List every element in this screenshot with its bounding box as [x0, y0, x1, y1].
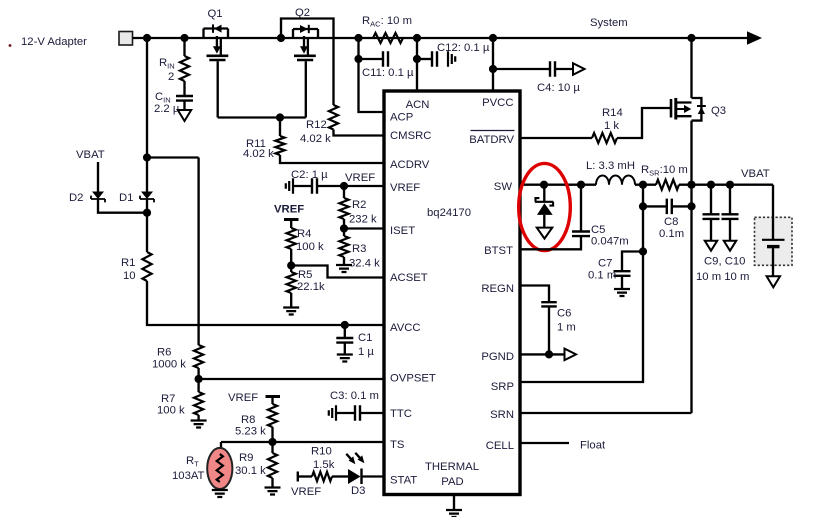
svg-text:R8: R8	[241, 414, 255, 426]
capacitor C4	[550, 61, 555, 77]
svg-text:bq24170: bq24170	[427, 207, 471, 219]
node dot C4 branch	[489, 65, 497, 73]
svg-text:1000 k: 1000 k	[152, 359, 186, 371]
wire: schottky gnd stub	[543, 215, 545, 228]
wire: Q1-Q2 gate bus	[218, 116, 306, 118]
capacitor C3	[355, 405, 360, 421]
transistor Q1 channel arrow	[217, 36, 221, 55]
svg-text:CELL: CELL	[486, 440, 514, 452]
wire: R1 to AVCC	[147, 281, 384, 325]
svg-text:D3: D3	[351, 485, 365, 497]
arrow: PGND	[565, 349, 577, 361]
wire: R8 stem	[271, 397, 273, 405]
svg-text:103AT: 103AT	[172, 470, 205, 482]
svg-text:5.23 k: 5.23 k	[235, 426, 266, 438]
svg-text:C6: C6	[557, 308, 571, 320]
svg-text:VREF: VREF	[291, 486, 321, 498]
svg-text:BATDRV: BATDRV	[469, 134, 514, 146]
diode D4 schottky	[537, 203, 553, 215]
transistor Q3 gate bar	[670, 99, 673, 118]
svg-text:RAC: 10 m: RAC: 10 m	[362, 15, 412, 29]
node dot PVCC	[489, 34, 497, 42]
svg-text:R3: R3	[352, 243, 366, 255]
node dot adapter-left-vertical	[143, 34, 151, 42]
wire: C5 to BTST	[520, 236, 581, 249]
wire: schottky stub	[543, 185, 545, 201]
resistor R3	[339, 236, 348, 257]
wire: thermal pad ground stub	[453, 495, 455, 510]
wire: C7 branch	[622, 252, 643, 272]
resistor RIN	[180, 56, 189, 81]
transistor Q2 body diode	[300, 25, 308, 33]
svg-text:1 k: 1 k	[604, 120, 619, 132]
wire: Q1 gate lead	[217, 61, 219, 117]
node dot R4-R5	[287, 261, 295, 269]
transistor Q3 channel arrow	[676, 108, 685, 110]
resistor R8	[268, 404, 277, 427]
svg-text:R10: R10	[311, 446, 332, 458]
wire: R2 top stub	[343, 186, 345, 198]
svg-text:Q1: Q1	[207, 8, 222, 20]
svg-text:VREF: VREF	[390, 182, 420, 194]
wire: TS wire	[221, 441, 384, 443]
resistor R7	[194, 392, 203, 415]
svg-text:C11: 0.1 µ: C11: 0.1 µ	[362, 67, 414, 79]
svg-text:PGND: PGND	[481, 351, 514, 363]
node dot C8 left	[639, 202, 647, 210]
wire: C8 left lead	[643, 205, 667, 207]
wire: adapter left vertical	[146, 38, 148, 192]
battery plate short	[767, 245, 780, 248]
wire: PGND lead	[520, 353, 565, 355]
svg-text:AVCC: AVCC	[390, 322, 421, 334]
wire: C4 lead	[493, 68, 550, 70]
svg-text:ACP: ACP	[390, 112, 413, 124]
wire: RIN stub	[183, 38, 185, 56]
svg-text:System: System	[590, 17, 628, 29]
svg-text:THERMAL: THERMAL	[425, 461, 479, 473]
svg-text:10 m 10 m: 10 m 10 m	[696, 271, 749, 283]
svg-text:1 µ: 1 µ	[358, 346, 374, 358]
svg-text:VBAT: VBAT	[741, 168, 770, 180]
highlight ellipse (red)	[519, 163, 571, 250]
svg-text:R7: R7	[161, 393, 175, 405]
capacitor C12	[432, 51, 437, 67]
ground (sideways) at C3	[329, 405, 336, 421]
svg-text:BTST: BTST	[484, 245, 513, 257]
resistor R12	[329, 105, 338, 130]
svg-text:C4: 10 µ: C4: 10 µ	[537, 82, 580, 94]
node dot R8-R9	[268, 438, 276, 446]
svg-text:Q3: Q3	[711, 105, 726, 117]
svg-text:R2: R2	[352, 199, 366, 211]
svg-text:32.4 k: 32.4 k	[349, 258, 380, 270]
wire: RT stub	[220, 442, 222, 448]
svg-text:1.5k: 1.5k	[313, 459, 335, 471]
wire: R14 to Q3 gate	[617, 108, 670, 138]
battery pack box	[755, 217, 793, 265]
node: R10 input terminal	[297, 472, 299, 482]
svg-text:1 m: 1 m	[557, 322, 576, 334]
thermistor RT body	[207, 448, 232, 489]
svg-text:C5: C5	[591, 224, 605, 236]
wire: C8 right lead	[672, 205, 692, 207]
svg-text:0.1 m: 0.1 m	[588, 270, 616, 282]
transistor Q1 body-diode path	[204, 29, 229, 39]
svg-text:0.1m: 0.1m	[659, 228, 684, 240]
ground below R7	[191, 421, 207, 428]
wire: R11 top stub	[279, 118, 281, 137]
node: 12-V adapter input pad	[119, 32, 133, 46]
wire: adapter input rail	[133, 37, 748, 39]
wire: CELL wire	[520, 442, 569, 444]
svg-text:R5: R5	[298, 269, 312, 281]
LED D3 arrows	[346, 453, 360, 459]
transistor Q2 body-diode path	[293, 29, 318, 38]
svg-text:RSR:10 m: RSR:10 m	[641, 164, 688, 178]
node dot RIN branch	[180, 34, 188, 42]
wire: L to RSR	[635, 184, 656, 186]
wire: VREF stem	[290, 220, 292, 229]
wire: C9 stub	[710, 185, 712, 215]
svg-text:R1: R1	[121, 257, 135, 269]
ground (sideways) at C12	[448, 51, 455, 67]
svg-text:ACSET: ACSET	[390, 272, 428, 284]
wire: Q3 drain from system	[690, 38, 692, 98]
node dot C9 top	[707, 181, 715, 189]
wire: R12 to CMSRC	[334, 130, 385, 136]
net VREF T-bar	[284, 218, 299, 221]
node dot C8 right	[687, 202, 695, 210]
wire: ACN drop	[416, 38, 418, 91]
svg-text:REGN: REGN	[481, 283, 514, 295]
wire: battery gnd stub	[772, 248, 774, 276]
transistor Q3 body diode	[698, 107, 705, 114]
node dot C1 branch	[341, 321, 349, 329]
capacitor C9	[703, 214, 720, 219]
transistor Q2 outer loop	[281, 19, 334, 106]
node dot C5 top	[577, 181, 585, 189]
resistor R14	[592, 133, 617, 143]
node dot gate bus / R11	[276, 113, 284, 121]
svg-text:Q2: Q2	[295, 7, 310, 19]
wire: OVP divider vertical	[197, 158, 199, 346]
svg-text:C9, C10: C9, C10	[704, 256, 745, 268]
svg-text:0.047m: 0.047m	[591, 236, 629, 248]
wire: Q2 gate lead	[305, 61, 307, 117]
wire: R9 gnd stub	[271, 478, 273, 487]
capacitor C8	[667, 199, 672, 215]
diode D2	[92, 192, 104, 200]
wire: SRN wire	[520, 412, 692, 414]
svg-text:STAT: STAT	[390, 475, 417, 487]
wire: PVCC drop	[492, 38, 494, 91]
diode D4 schottky bar	[535, 198, 553, 206]
svg-text:SW: SW	[494, 181, 513, 193]
svg-text:SRP: SRP	[491, 381, 514, 393]
svg-text:RT: RT	[186, 455, 199, 469]
svg-text:C1: C1	[358, 332, 372, 344]
svg-text:VREF: VREF	[345, 172, 375, 184]
wire: C3 left lead	[336, 412, 355, 414]
inductor L 3.3mH	[596, 176, 635, 185]
svg-text:4.02 k: 4.02 k	[243, 148, 274, 160]
transistor Q2 channel arrow	[304, 36, 308, 55]
wire: BATDRV lead	[520, 137, 592, 139]
node dot C7 branch	[639, 247, 647, 255]
resistor RAC	[373, 33, 403, 43]
wire: R8-node	[271, 427, 273, 453]
transistor Q3 body diode loop	[692, 98, 702, 121]
wire: C12 lead	[417, 58, 432, 60]
wire: RIN-CIN	[183, 81, 185, 96]
resistor R1	[142, 252, 151, 281]
svg-text:CMSRC: CMSRC	[390, 130, 431, 142]
capacitor C5	[572, 232, 590, 237]
resistor R10	[312, 472, 332, 481]
svg-text:4.02 k: 4.02 k	[300, 133, 331, 145]
resistor R11	[275, 136, 284, 155]
resistor R5	[287, 272, 296, 293]
wire: CIN-gnd stub	[183, 101, 185, 110]
power ground below C9	[705, 241, 718, 251]
svg-text:R14: R14	[602, 107, 623, 119]
transistor Q2 gate bar	[297, 59, 313, 62]
wire: R4-node	[290, 249, 292, 272]
wire: RSR right to VBAT corner	[679, 184, 773, 186]
arrow: C4 to system	[573, 63, 585, 75]
resistor RSR	[656, 180, 679, 190]
svg-text:PAD: PAD	[441, 476, 463, 488]
wire: C3 to TTC	[360, 412, 384, 414]
svg-text:12-V Adapter: 12-V Adapter	[21, 36, 87, 48]
transistor Q1 channel bar	[207, 54, 229, 57]
resistor R4	[287, 228, 296, 249]
node dot C10 top	[726, 181, 734, 189]
wire: OVPSET wire	[199, 378, 384, 380]
svg-text:232 k: 232 k	[349, 214, 377, 226]
ground below IC	[446, 510, 462, 517]
wire: R10 to D3	[332, 475, 348, 477]
svg-text:C3: 0.1 m: C3: 0.1 m	[330, 390, 379, 402]
ground below R3	[336, 265, 352, 272]
op-amp U1 bq24170 outline	[384, 91, 520, 495]
wire: C4 right lead	[555, 68, 573, 70]
node dot C11 right	[413, 55, 421, 63]
svg-text:TTC: TTC	[390, 408, 412, 420]
capacitor C1	[336, 338, 353, 343]
wire: C10 gnd stub	[729, 219, 731, 241]
svg-text:ACDRV: ACDRV	[390, 159, 430, 171]
resistor R6	[194, 345, 203, 368]
transistor Q3 channel bar	[674, 98, 677, 120]
node dot diode junction	[143, 209, 151, 217]
transistor Q1 body diode	[214, 25, 222, 33]
wire: ACP drop	[359, 38, 385, 112]
power ground below CIN	[178, 110, 191, 121]
svg-text:TS: TS	[390, 439, 405, 451]
svg-text:C12: 0.1 µ: C12: 0.1 µ	[437, 42, 490, 54]
wire: junction to R1	[146, 199, 148, 252]
node dot system/Q3	[687, 34, 695, 42]
svg-text:R4: R4	[297, 228, 311, 240]
node dot PGND	[545, 350, 553, 358]
capacitor C7	[614, 271, 631, 276]
svg-text:SRN: SRN	[490, 409, 514, 421]
svg-text:ACN: ACN	[406, 99, 430, 111]
wire: VBAT stub to D2	[97, 162, 99, 192]
power ground below C10	[724, 241, 737, 251]
ground below R5	[283, 308, 299, 315]
wire: R10 left lead	[298, 475, 312, 477]
wire: C1 stub	[344, 325, 346, 338]
svg-text:22.1k: 22.1k	[297, 281, 325, 293]
svg-text:10: 10	[123, 270, 136, 282]
node dot C11 left	[354, 55, 362, 63]
battery plate long	[762, 239, 785, 241]
svg-text:2.2 µ: 2.2 µ	[154, 103, 180, 115]
wire: R6-node	[197, 368, 199, 392]
svg-text:C8: C8	[664, 216, 678, 228]
wire: REGN lead	[520, 286, 549, 303]
svg-text:ISET: ISET	[390, 225, 415, 237]
diode D1	[141, 192, 153, 200]
wire: R2-ISET	[343, 219, 345, 236]
decorative bullet	[9, 44, 12, 47]
resistor R9	[268, 453, 277, 478]
svg-text:D2: D2	[69, 192, 83, 204]
node dot VREF	[340, 182, 348, 190]
svg-text:R12: R12	[306, 119, 327, 131]
node dot RSR left	[639, 181, 647, 189]
ground (sideways) at C2	[286, 178, 293, 194]
capacitor C10	[722, 214, 739, 219]
svg-text:R6: R6	[157, 347, 171, 359]
ground below C1	[337, 355, 353, 362]
wire: C1 gnd stub	[344, 343, 346, 354]
wire: C9 gnd stub	[710, 219, 712, 241]
wire: R3 gnd stub	[343, 257, 345, 265]
node dot RAC right / ACN	[413, 34, 421, 42]
node dot OVPSET	[195, 375, 203, 383]
transistor Q2 channel bar	[294, 54, 316, 57]
svg-text:Float: Float	[580, 440, 606, 452]
svg-text:100 k: 100 k	[296, 241, 324, 253]
svg-text:VBAT: VBAT	[76, 149, 105, 161]
capacitor C2	[312, 178, 317, 194]
wire: C7 gnd stub	[621, 276, 623, 289]
ground below R9	[265, 488, 281, 495]
svg-text:VREF: VREF	[274, 204, 304, 216]
svg-text:C7: C7	[598, 258, 612, 270]
svg-text:R9: R9	[239, 452, 253, 464]
power ground below battery	[767, 276, 780, 287]
ground below C7	[614, 289, 630, 296]
svg-text:L: 3.3 mH: L: 3.3 mH	[586, 160, 635, 172]
node dot Q2 source	[277, 34, 285, 42]
LED D3	[348, 469, 361, 484]
node dot D1 branch	[143, 153, 151, 161]
svg-text:2: 2	[168, 71, 174, 83]
svg-text:RIN: RIN	[159, 57, 175, 71]
svg-text:OVPSET: OVPSET	[390, 373, 436, 385]
wire: Q3 source to VBAT	[690, 121, 692, 413]
thermistor RT element	[217, 454, 223, 482]
capacitor C6	[541, 302, 557, 306]
wire: SW lead	[520, 184, 596, 186]
wire: C2 to VREF node	[317, 185, 384, 187]
wire: C11 left lead	[359, 58, 384, 60]
wire: R5 gnd stub	[290, 293, 292, 307]
svg-text:D1: D1	[119, 192, 133, 204]
wire: branch to OVP divider	[147, 156, 199, 158]
svg-text:VREF: VREF	[228, 392, 258, 404]
wire: ACSET wire	[291, 266, 384, 278]
power ground below schottky	[537, 228, 553, 239]
transistor Q1 gate bar	[209, 59, 225, 62]
wire: C6 to PGND	[548, 306, 550, 354]
wire: C10 stub	[729, 185, 731, 215]
node dot RAC left	[354, 34, 362, 42]
wire: C5 top stub	[580, 185, 582, 232]
wire: C2 left lead	[293, 185, 312, 187]
arrow: system output	[747, 31, 762, 45]
capacitor CIN	[176, 96, 193, 101]
wire: D2 to junction	[98, 199, 147, 213]
ground below RT	[212, 490, 228, 497]
svg-text:PVCC: PVCC	[482, 97, 513, 109]
node dot RSR right	[687, 181, 695, 189]
wire: D3 to STAT	[362, 475, 385, 477]
resistor R2	[339, 198, 348, 219]
wire: ISET wire	[344, 227, 384, 229]
node dot ISET	[340, 224, 348, 232]
net VREF T-bar R8	[266, 395, 281, 398]
wire: R11 to ACDRV	[280, 155, 384, 163]
svg-text:100 k: 100 k	[157, 405, 185, 417]
node dot schottky	[540, 181, 548, 189]
transistor Q3 stubs	[676, 103, 692, 117]
wire: SRP vertical	[520, 185, 643, 382]
wire: VBAT to battery	[772, 185, 774, 240]
capacitor C11	[383, 51, 388, 67]
svg-text:30.1 k: 30.1 k	[235, 465, 266, 477]
wire: R7 gnd stub	[197, 415, 199, 420]
svg-text:C2: 1 µ: C2: 1 µ	[291, 169, 328, 181]
